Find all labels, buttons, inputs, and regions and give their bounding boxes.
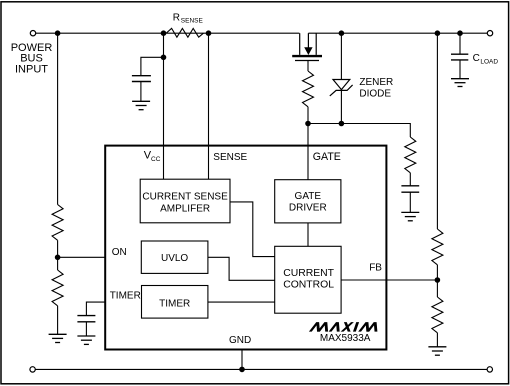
svg-text:GATE: GATE xyxy=(313,151,341,163)
wire FB lower to ground xyxy=(436,333,438,347)
wire gate net horizontal xyxy=(308,124,410,138)
diode zener D1 xyxy=(330,33,353,123)
label RSENSE xyxy=(173,13,204,25)
wire gate resistor to node xyxy=(307,107,309,124)
junction dots top bus xyxy=(55,30,463,36)
wire TIMER output to current control xyxy=(208,301,275,303)
transistor Q1 MOSFET xyxy=(292,33,322,60)
resistor left upper xyxy=(52,205,63,241)
junction dot ON node xyxy=(55,254,61,260)
svg-text:INPUT: INPUT xyxy=(15,64,48,76)
label CLOAD xyxy=(473,53,499,65)
svg-text:DRIVER: DRIVER xyxy=(289,203,327,214)
svg-text:C: C xyxy=(473,53,480,64)
capacitor timer xyxy=(77,316,95,336)
svg-text:CURRENT: CURRENT xyxy=(283,268,334,279)
pin label GATE xyxy=(313,151,341,163)
resistor left lower xyxy=(52,270,63,306)
wire FB node vertical xyxy=(436,265,438,297)
ground timer cap xyxy=(77,336,95,344)
wire VCC vertical xyxy=(163,33,165,179)
svg-text:DIODE: DIODE xyxy=(359,88,391,99)
svg-text:AMPLIFER: AMPLIFER xyxy=(160,204,210,215)
pin label GND xyxy=(229,335,251,346)
wire bottom bus xyxy=(35,368,487,370)
wire TIMER pin branch xyxy=(86,302,105,315)
svg-text:ZENER: ZENER xyxy=(359,77,393,88)
svg-text:SENSE: SENSE xyxy=(181,18,204,25)
wire CSA output to current control xyxy=(230,202,275,257)
pin label SENSE xyxy=(213,152,247,163)
wire top bus right segment xyxy=(308,32,487,34)
svg-text:CC: CC xyxy=(151,156,161,163)
wire left rail bottom xyxy=(57,306,59,335)
junction dot VCC cap branch xyxy=(161,55,167,61)
junction dot gate node xyxy=(305,121,311,127)
svg-text:LOAD: LOAD xyxy=(480,59,498,66)
wire left rail upper xyxy=(57,33,59,204)
junction dot zener bottom xyxy=(339,121,345,127)
label POWER BUS INPUT xyxy=(11,42,53,76)
block UVLO xyxy=(141,241,208,273)
wire GND pin xyxy=(241,350,243,370)
label MAX5933A xyxy=(320,333,371,344)
pin label VCC xyxy=(144,149,161,163)
ground CLOAD xyxy=(451,79,469,87)
svg-text:R: R xyxy=(173,13,180,24)
capacitor gate net xyxy=(401,186,419,213)
block gate driver xyxy=(275,180,341,223)
resistor FB upper xyxy=(432,229,443,265)
block current control xyxy=(275,246,341,313)
junction dot FB node xyxy=(435,277,441,283)
wire gate driver to current control xyxy=(307,223,309,246)
pin label TIMER xyxy=(110,291,141,302)
wire left rail mid xyxy=(57,240,59,270)
wire gate lead xyxy=(307,61,309,72)
wire ON pin xyxy=(58,256,106,258)
svg-text:SENSE: SENSE xyxy=(213,152,247,163)
wire input cap branch xyxy=(141,57,164,76)
wire SENSE vertical xyxy=(208,33,210,179)
pin label FB xyxy=(369,263,382,274)
ground FB divider xyxy=(428,347,446,355)
svg-text:GND: GND xyxy=(229,335,251,346)
label ZENER DIODE xyxy=(359,77,393,99)
capacitor input xyxy=(132,76,151,102)
wire FB rail upper xyxy=(436,33,438,229)
svg-text:MAX5933A: MAX5933A xyxy=(320,333,371,344)
resistor RSENSE xyxy=(166,28,203,37)
terminal bottom-right xyxy=(487,367,492,372)
resistor FB lower xyxy=(432,297,443,333)
svg-text:ON: ON xyxy=(112,247,127,258)
pin label ON xyxy=(112,247,127,258)
svg-text:CONTROL: CONTROL xyxy=(283,280,334,291)
resistor gate xyxy=(303,71,314,107)
wire gate net resistor to cap xyxy=(409,173,411,186)
block TIMER xyxy=(142,286,208,319)
block current sense amplifier xyxy=(140,179,230,223)
wire GATE pin vertical xyxy=(307,124,309,181)
IC box MAX5933A xyxy=(105,146,386,350)
logo MAXIM xyxy=(309,322,381,332)
terminal top-left xyxy=(30,31,35,36)
svg-text:TIMER: TIMER xyxy=(110,291,141,302)
svg-text:CURRENT SENSE: CURRENT SENSE xyxy=(142,192,228,203)
svg-text:FB: FB xyxy=(369,263,382,274)
wire top bus left segment xyxy=(36,32,300,34)
wire UVLO output to current control xyxy=(208,257,275,280)
ground input cap xyxy=(132,101,150,109)
ground gate net xyxy=(401,212,419,220)
terminal top-right xyxy=(487,31,492,36)
svg-text:TIMER: TIMER xyxy=(159,299,190,310)
wire FB xyxy=(341,279,437,281)
resistor gate net xyxy=(405,137,416,173)
junction dot GND bottom bus xyxy=(239,367,245,373)
terminal bottom-left xyxy=(30,367,35,372)
svg-text:UVLO: UVLO xyxy=(161,253,188,264)
svg-text:GATE: GATE xyxy=(295,191,322,202)
capacitor CLOAD xyxy=(451,33,468,78)
ground left rail xyxy=(49,334,67,342)
